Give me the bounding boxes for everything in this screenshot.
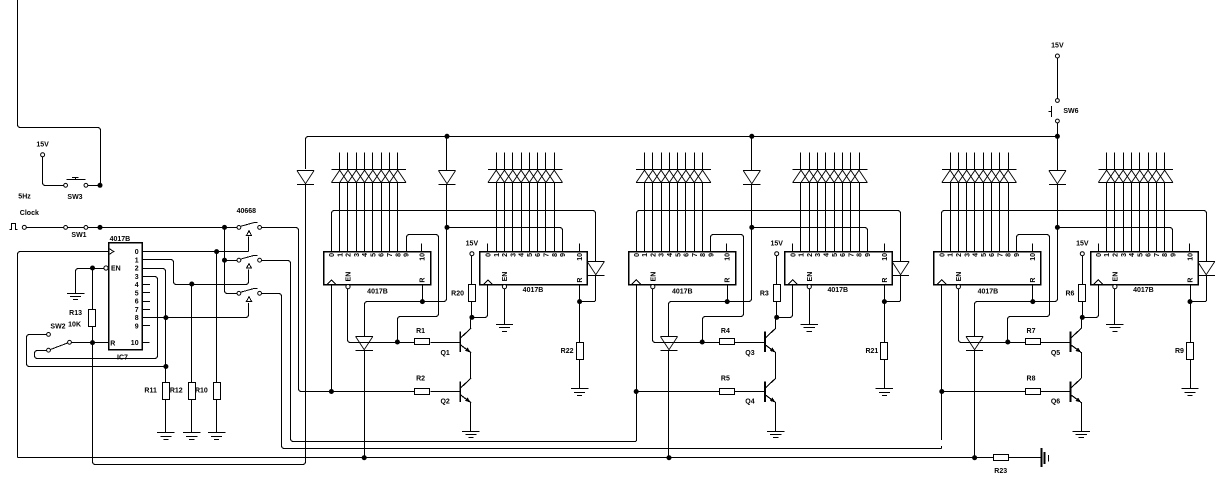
resistor R12 xyxy=(191,286,193,382)
svg-text:0: 0 xyxy=(486,253,493,257)
array diode IC5 pin1 xyxy=(942,170,959,183)
resistor R1 xyxy=(400,342,416,344)
wire reset diode up to top rail xyxy=(751,138,753,169)
array diode IC3 pin5 xyxy=(669,170,686,183)
transistor Q1 (NPN) xyxy=(460,328,471,353)
wire IC7 pin7 stub xyxy=(142,309,150,311)
ground for IC7 EN xyxy=(67,294,84,300)
junction R13 / IC7 R input / SW2 common xyxy=(90,340,95,345)
wire IC5 R input line xyxy=(975,229,1058,336)
wire diode to bottom rail xyxy=(974,350,976,456)
ground for IC2 EN xyxy=(496,325,513,332)
svg-text:10K: 10K xyxy=(68,322,81,329)
junction reset diode / pin9 line xyxy=(1055,225,1060,230)
svg-text:0: 0 xyxy=(790,253,797,257)
junction pin0 / R10 branch xyxy=(214,249,219,254)
analog switch 40668-B xyxy=(237,258,241,262)
svg-text:2: 2 xyxy=(346,253,353,257)
wire R23 to battery xyxy=(1009,457,1041,459)
wire reset diode up to top rail xyxy=(1057,138,1059,169)
wire reset diode line to IC6 pin9 xyxy=(1060,228,1173,252)
array diode IC3 pin3 xyxy=(653,170,670,183)
analog switch 40668-A xyxy=(237,226,241,230)
svg-text:10: 10 xyxy=(1030,253,1037,261)
svg-text:R10: R10 xyxy=(195,388,208,395)
svg-text:2: 2 xyxy=(135,266,139,273)
wire SW2 common to R13 node xyxy=(71,342,90,344)
wire R5 line xyxy=(638,391,720,393)
junction pin2 / pin8 node xyxy=(163,315,168,320)
svg-text:R3: R3 xyxy=(760,291,769,298)
svg-text:5Hz: 5Hz xyxy=(18,194,31,201)
svg-text:10: 10 xyxy=(724,253,731,261)
svg-text:R12: R12 xyxy=(170,388,183,395)
IC IC5 4017B (left of stage 3) xyxy=(934,252,1041,285)
wire IC5 EN to base node xyxy=(959,289,1006,343)
diode IC6 reset (right edge) xyxy=(1198,262,1215,276)
array diode IC6 pin8 xyxy=(1156,170,1173,183)
svg-text:0: 0 xyxy=(1096,253,1103,257)
svg-text:2: 2 xyxy=(502,253,509,257)
svg-text:3: 3 xyxy=(964,253,971,257)
svg-text:7: 7 xyxy=(848,253,855,257)
wire pin2/pin8 node to R11 xyxy=(165,320,167,365)
array diode IC2 pin5 xyxy=(521,170,538,183)
svg-text:10: 10 xyxy=(577,253,584,261)
resistor R7 xyxy=(1010,342,1026,344)
svg-text:1: 1 xyxy=(799,253,806,257)
transistor Q4 (NPN) xyxy=(765,378,776,403)
wire diode to bottom rail xyxy=(364,350,366,456)
svg-text:5: 5 xyxy=(675,253,682,257)
svg-text:10: 10 xyxy=(131,340,139,347)
IC5 clock triangle xyxy=(937,280,946,284)
svg-text:SW2: SW2 xyxy=(50,324,65,331)
IC3 clock triangle xyxy=(632,280,641,284)
svg-text:6: 6 xyxy=(684,253,691,257)
junction clock / R5 line xyxy=(634,389,639,394)
svg-text:6: 6 xyxy=(1146,253,1153,257)
svg-text:R1: R1 xyxy=(416,328,425,335)
reset diode of stage 2 xyxy=(743,171,760,185)
wire IC7 pin0 to analog switch A xyxy=(142,251,215,253)
resistor R20 xyxy=(471,256,473,285)
svg-text:R5: R5 xyxy=(721,376,730,383)
array diode IC6 pin3 xyxy=(1115,170,1132,183)
ground for R10 xyxy=(208,433,225,440)
resistor R5 xyxy=(720,389,735,395)
svg-text:7: 7 xyxy=(544,253,551,257)
wire switch B output to bottom rail 1 xyxy=(262,261,637,442)
transistor Q2 (NPN) xyxy=(460,378,471,403)
svg-text:6: 6 xyxy=(535,253,542,257)
svg-text:R21: R21 xyxy=(865,348,878,355)
wire IC5 clock input xyxy=(941,284,943,440)
svg-text:3: 3 xyxy=(135,274,139,281)
ground for R11 xyxy=(157,433,174,440)
master reset top rail xyxy=(306,137,1058,170)
array diode IC4 pin2 xyxy=(801,170,818,183)
wire Q5 emitter to Q6 collector xyxy=(1081,353,1083,379)
wire switch A output xyxy=(262,228,330,392)
junction R6 / Q5 collector / IC6 clock xyxy=(1080,315,1085,320)
wire IC3 clock input xyxy=(636,284,638,440)
wire Q3 emitter to Q4 collector xyxy=(775,353,777,379)
pushbutton SW3 xyxy=(64,183,68,187)
svg-text:EN: EN xyxy=(807,272,814,282)
array diode IC2 pin1 xyxy=(488,170,505,183)
wire diode to IC4 R input xyxy=(886,275,900,301)
IC2 clock triangle xyxy=(484,280,493,284)
wire R2 line xyxy=(334,391,416,393)
transistor Q5 (NPN) xyxy=(1071,328,1082,353)
ground for R21 xyxy=(876,389,893,396)
svg-text:0: 0 xyxy=(329,253,336,257)
array diode IC2 pin3 xyxy=(504,170,521,183)
array diode IC5 pin8 xyxy=(1000,170,1017,183)
IC4 R input wire xyxy=(884,284,886,299)
svg-text:R23: R23 xyxy=(994,468,1007,475)
svg-text:4017B: 4017B xyxy=(827,287,848,294)
ground for R9 xyxy=(1181,389,1198,396)
diode IC2 reset (right edge) xyxy=(587,262,604,276)
array diode IC1 pin7 xyxy=(381,170,398,183)
IC2 EN bubble xyxy=(502,285,506,289)
IC7 EN input bubble xyxy=(104,266,108,270)
IC U7 4017B decade counter (vertical) xyxy=(109,243,143,350)
wire IC3 pin0 to diode at IC4 reset xyxy=(637,211,901,262)
svg-text:1: 1 xyxy=(337,253,344,257)
junction R20 / Q1 collector / IC2 clock xyxy=(469,315,474,320)
array diode IC6 pin1 xyxy=(1098,170,1115,183)
analog switch 40668-C control arrow xyxy=(247,297,252,302)
array diode IC4 pin1 xyxy=(793,170,810,183)
wires IC6 pins 1-8 to diode array xyxy=(1106,152,1108,169)
svg-text:1: 1 xyxy=(494,253,501,257)
IC IC4 4017B (right of stage 2) xyxy=(785,252,893,285)
resistor R22 xyxy=(579,304,581,342)
svg-text:R2: R2 xyxy=(416,376,425,383)
svg-text:1: 1 xyxy=(642,253,649,257)
svg-text:9: 9 xyxy=(560,253,567,257)
resistor R10 xyxy=(216,254,218,383)
svg-text:9: 9 xyxy=(1014,253,1021,257)
analog switch 40668-C xyxy=(237,291,241,295)
svg-text:7: 7 xyxy=(1154,253,1161,257)
wire IC7 pin2 down xyxy=(142,269,166,316)
svg-text:4017B: 4017B xyxy=(110,236,131,243)
wire from top-left to clock switch column xyxy=(18,0,101,185)
array diode IC1 pin4 xyxy=(356,170,373,183)
svg-text:9: 9 xyxy=(708,253,715,257)
wire switch C output to bottom rail 2 xyxy=(262,294,942,449)
array diode IC1 pin1 xyxy=(331,170,348,183)
wire R13 node down to bottom U-link xyxy=(93,184,306,464)
ground for R22 xyxy=(571,389,588,396)
array diode IC5 pin2 xyxy=(950,170,967,183)
array diode IC6 pin4 xyxy=(1123,170,1140,183)
svg-text:8: 8 xyxy=(1006,253,1013,257)
array diode IC3 pin8 xyxy=(694,170,711,183)
wire reset diode up to top rail xyxy=(446,138,448,169)
wires IC3 pins 1-8 to diode array xyxy=(644,152,646,169)
svg-text:3: 3 xyxy=(1121,253,1128,257)
wire Q3 collector xyxy=(775,320,777,329)
svg-text:Q2: Q2 xyxy=(440,399,449,406)
IC6 pin0 stub xyxy=(1098,244,1100,252)
power terminal 15V (top right) xyxy=(1055,54,1059,58)
resistor R6 xyxy=(1082,256,1084,285)
junction clock rail / switch A xyxy=(222,225,227,230)
wire node to IC6 clock input xyxy=(1084,284,1098,317)
clock rail vertical to switches B and C xyxy=(224,229,226,258)
svg-text:1: 1 xyxy=(135,257,139,264)
array diode IC1 pin3 xyxy=(348,170,365,183)
svg-text:2: 2 xyxy=(1112,253,1119,257)
svg-text:4017B: 4017B xyxy=(1133,287,1154,294)
array diode IC2 pin6 xyxy=(529,170,546,183)
IC4 EN bubble xyxy=(807,285,811,289)
array diode IC3 pin6 xyxy=(678,170,695,183)
array diode IC5 pin5 xyxy=(975,170,992,183)
reset diode of stage 3 xyxy=(1049,171,1066,185)
svg-text:15V: 15V xyxy=(1051,43,1064,50)
diode IC4 reset (right edge) xyxy=(892,262,909,276)
junction pin1 / R12 branch xyxy=(189,282,194,287)
svg-text:5: 5 xyxy=(1137,253,1144,257)
svg-text:7: 7 xyxy=(692,253,699,257)
junction IC1 R input xyxy=(420,299,425,304)
svg-text:2: 2 xyxy=(956,253,963,257)
IC5 pin10 stub xyxy=(1032,244,1034,252)
junction reset diode / pin9 line xyxy=(749,225,754,230)
array diode IC3 pin7 xyxy=(686,170,703,183)
IC IC3 4017B (left of stage 2) xyxy=(629,252,736,285)
svg-text:Q4: Q4 xyxy=(745,399,754,406)
wire IC7 pin9 stub xyxy=(142,325,150,327)
wire R8 line xyxy=(944,391,1026,393)
svg-text:7: 7 xyxy=(997,253,1004,257)
junction reset diode / top rail xyxy=(749,134,754,139)
array diode IC4 pin5 xyxy=(826,170,843,183)
svg-text:4: 4 xyxy=(135,282,139,289)
array diode IC2 pin8 xyxy=(546,170,563,183)
svg-text:4: 4 xyxy=(1129,253,1136,257)
wire Q4 emitter to ground xyxy=(775,403,777,432)
wire EN to ground branch xyxy=(93,268,104,270)
svg-text:R13: R13 xyxy=(69,310,82,317)
IC6 pin10 stub xyxy=(1189,244,1191,252)
svg-text:3: 3 xyxy=(815,253,822,257)
svg-text:9: 9 xyxy=(1171,253,1178,257)
array diode IC3 pin1 xyxy=(636,170,653,183)
wire Q6 emitter to ground xyxy=(1081,403,1083,432)
junction IC5 R input xyxy=(1030,299,1035,304)
svg-text:SW6: SW6 xyxy=(1063,108,1078,115)
junction reset diode / pin9 line xyxy=(445,225,450,230)
wire reset diode line to IC4 pin9 xyxy=(754,228,868,252)
array diode IC6 pin7 xyxy=(1148,170,1165,183)
transistor Q3 (NPN) xyxy=(765,328,776,353)
IC2 EN to ground xyxy=(504,289,506,325)
wire SW3 to node xyxy=(88,185,98,187)
wire IC7 pin6 stub xyxy=(142,301,150,303)
IC4 clock triangle xyxy=(788,280,797,284)
ground for Q2 emitter xyxy=(462,432,479,438)
svg-text:9: 9 xyxy=(135,323,139,330)
svg-text:15V: 15V xyxy=(36,142,49,149)
junction base node R1 xyxy=(395,340,400,345)
IC3 EN bubble xyxy=(651,285,655,289)
wire node to IC4 clock input xyxy=(779,284,793,317)
svg-text:SW1: SW1 xyxy=(71,232,86,239)
svg-text:2: 2 xyxy=(650,253,657,257)
IC5 EN bubble xyxy=(956,285,960,289)
svg-text:6: 6 xyxy=(135,299,139,306)
wire IC1 pin0 to diode at IC2 reset xyxy=(332,211,596,262)
array diode IC4 pin8 xyxy=(851,170,868,183)
array diode IC3 pin4 xyxy=(661,170,678,183)
IC6 R input wire xyxy=(1190,284,1192,299)
array diode IC6 pin2 xyxy=(1107,170,1124,183)
power terminal 15V stage 3 xyxy=(1080,252,1084,256)
wire IC3 pin9 to R4 xyxy=(703,235,744,340)
svg-text:15V: 15V xyxy=(1076,240,1089,247)
wire IC7 clock input loop to bottom rail xyxy=(18,252,109,458)
svg-text:R: R xyxy=(1030,278,1037,283)
array diode IC6 pin5 xyxy=(1131,170,1148,183)
junction base node R4 xyxy=(700,340,705,345)
IC3 pin10 stub xyxy=(726,244,728,252)
svg-text:4: 4 xyxy=(362,253,369,257)
junction clock node at x=100 xyxy=(98,225,103,230)
svg-text:8: 8 xyxy=(700,253,707,257)
svg-text:Q5: Q5 xyxy=(1051,350,1060,357)
clock pulse symbol xyxy=(9,223,17,229)
IC6 clock triangle xyxy=(1094,280,1103,284)
wire IC7 pin10 stub xyxy=(142,342,150,344)
svg-text:5: 5 xyxy=(370,253,377,257)
wire IC7 pin8 to analog switch C xyxy=(142,303,249,318)
wire IC3 EN to base node xyxy=(653,289,701,343)
wire diode to IC2 R input xyxy=(581,275,595,301)
power terminal 15V stage 2 xyxy=(775,252,779,256)
IC2 R input wire xyxy=(579,284,581,299)
wire IC1 EN to base node xyxy=(348,289,396,343)
array diode IC2 pin4 xyxy=(513,170,530,183)
wire SW2 bottom contact to IC7 pin3 xyxy=(35,277,158,359)
svg-text:Q3: Q3 xyxy=(745,350,754,357)
svg-text:4017B: 4017B xyxy=(978,288,999,295)
clock rail to 40668 switches xyxy=(102,227,222,229)
svg-text:5: 5 xyxy=(527,253,534,257)
svg-text:8: 8 xyxy=(135,315,139,322)
wire IC1 R input line xyxy=(365,229,447,336)
power terminal 15V stage 1 xyxy=(470,252,474,256)
wires IC1 pins 1-8 to diode array xyxy=(339,152,341,169)
svg-text:4: 4 xyxy=(519,253,526,257)
diode to clock-out rail (base crossing) xyxy=(660,337,677,351)
diode D-left (IC7 reset feed) xyxy=(297,171,314,185)
ground for IC6 EN xyxy=(1106,325,1123,332)
wire Q1 collector xyxy=(470,320,472,329)
IC1 EN bubble xyxy=(346,285,350,289)
junction EN node xyxy=(90,266,95,271)
wire IC7 pin5 stub xyxy=(142,292,150,294)
junction clock / R2 line xyxy=(329,389,334,394)
svg-text:R22: R22 xyxy=(561,348,574,355)
svg-text:10: 10 xyxy=(1187,253,1194,261)
svg-text:15V: 15V xyxy=(466,240,479,247)
pushbutton SW6 xyxy=(1057,58,1059,98)
clock input terminal xyxy=(22,225,26,229)
bottom clock-out rail xyxy=(18,457,994,459)
svg-text:4017B: 4017B xyxy=(367,288,388,295)
junction R3 / Q3 collector / IC4 clock xyxy=(774,315,779,320)
svg-text:Q6: Q6 xyxy=(1051,399,1060,406)
svg-text:8: 8 xyxy=(552,253,559,257)
svg-text:9: 9 xyxy=(404,253,411,257)
svg-text:EN: EN xyxy=(502,272,509,282)
IC6 EN bubble xyxy=(1113,285,1117,289)
svg-text:3: 3 xyxy=(354,253,361,257)
array diode IC3 pin2 xyxy=(644,170,661,183)
svg-text:8: 8 xyxy=(395,253,402,257)
array diode IC4 pin4 xyxy=(818,170,835,183)
svg-text:R: R xyxy=(1188,278,1195,283)
wire IC1 pin9 to R1 xyxy=(398,235,439,340)
ground for Q6 emitter xyxy=(1073,432,1090,438)
IC1 pin10 stub xyxy=(421,244,423,252)
svg-text:R: R xyxy=(882,278,889,283)
wires IC4 pins 1-8 to diode array xyxy=(800,152,802,169)
svg-text:8: 8 xyxy=(1162,253,1169,257)
array diode IC4 pin3 xyxy=(809,170,826,183)
junction IC4 R / R21 xyxy=(882,299,887,304)
wire reset diode down xyxy=(751,184,753,225)
svg-text:EN: EN xyxy=(1112,272,1119,282)
svg-text:R: R xyxy=(577,278,584,283)
junction clock rail / switch B xyxy=(222,258,227,263)
array diode IC1 pin2 xyxy=(340,170,357,183)
analog switch 40668-B control arrow xyxy=(247,264,252,269)
IC4 pin0 stub xyxy=(792,244,794,252)
svg-text:40668: 40668 xyxy=(237,208,257,215)
svg-text:6: 6 xyxy=(989,253,996,257)
array diode IC2 pin7 xyxy=(538,170,555,183)
svg-text:6: 6 xyxy=(840,253,847,257)
svg-text:R: R xyxy=(420,278,427,283)
wire 15V terminal to SW3 xyxy=(43,157,64,186)
wire clock terminal to SW1 xyxy=(26,227,63,229)
svg-text:0: 0 xyxy=(135,249,139,256)
wire reset diode down xyxy=(446,184,448,225)
IC IC2 4017B (right of stage 1) xyxy=(480,252,588,285)
junction reset diode / top rail xyxy=(445,134,450,139)
svg-text:EN: EN xyxy=(956,272,963,282)
svg-text:5: 5 xyxy=(981,253,988,257)
IC2 pin0 stub xyxy=(487,244,489,252)
battery cell xyxy=(1041,448,1043,467)
resistor R3 xyxy=(776,256,778,285)
junction R11 / SW2 top wire xyxy=(163,364,168,369)
svg-text:1: 1 xyxy=(948,253,955,257)
analog switch 40668-A control arrow xyxy=(247,231,252,236)
junction SW3/15V node xyxy=(98,183,103,188)
array diode IC1 pin6 xyxy=(373,170,390,183)
IC6 EN to ground xyxy=(1114,289,1116,325)
IC1 clock triangle xyxy=(327,280,336,284)
